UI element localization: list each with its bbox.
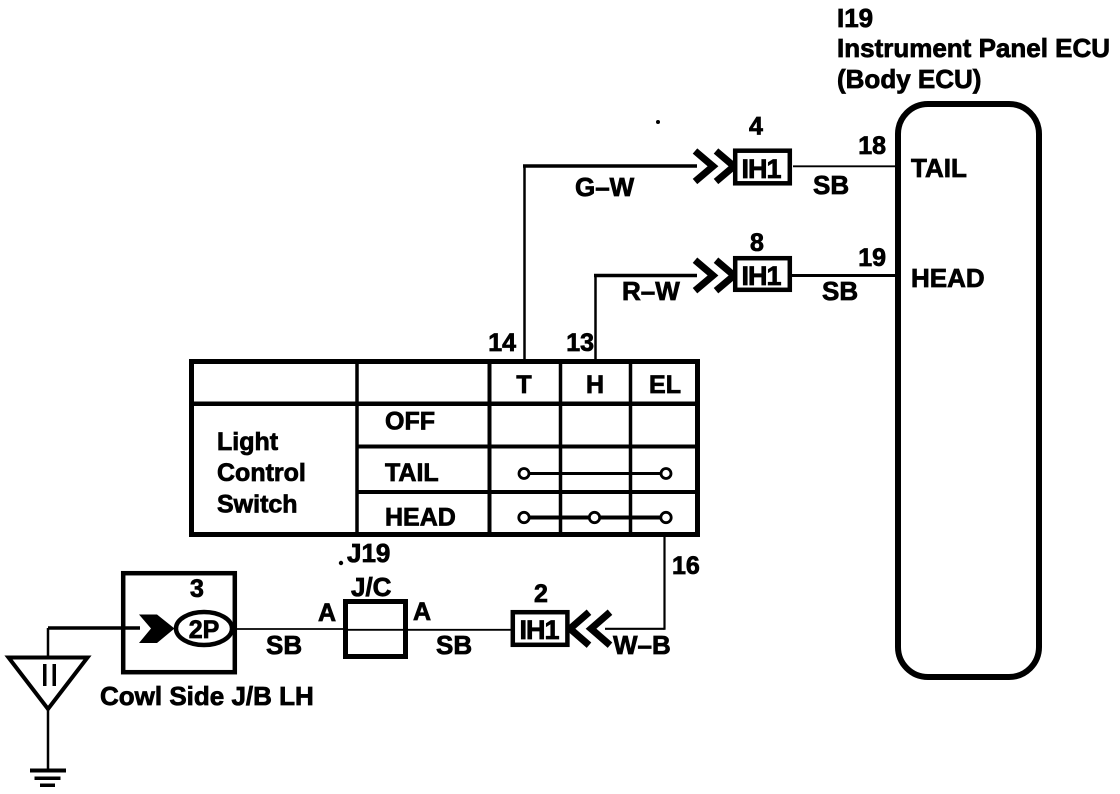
svg-text:IH1: IH1 xyxy=(519,615,559,645)
svg-text:SB: SB xyxy=(813,170,849,200)
svg-text:G–W: G–W xyxy=(575,172,635,202)
svg-text:SB: SB xyxy=(436,630,472,660)
svg-text:8: 8 xyxy=(750,229,764,257)
svg-text:HEAD: HEAD xyxy=(911,263,985,293)
svg-text:J19: J19 xyxy=(347,538,390,568)
svg-text:R–W: R–W xyxy=(622,276,680,306)
svg-text:W–B: W–B xyxy=(613,630,671,660)
svg-text:Cowl Side J/B LH: Cowl Side J/B LH xyxy=(100,681,314,711)
svg-text:Light: Light xyxy=(217,428,279,456)
svg-text:Instrument Panel ECU: Instrument Panel ECU xyxy=(837,33,1110,63)
svg-text:T: T xyxy=(516,371,531,399)
svg-text:Switch: Switch xyxy=(217,491,298,519)
svg-text:HEAD: HEAD xyxy=(385,504,456,532)
svg-text:(Body ECU): (Body ECU) xyxy=(837,64,981,94)
svg-text:16: 16 xyxy=(672,552,700,580)
svg-text:OFF: OFF xyxy=(385,408,435,436)
svg-text:3: 3 xyxy=(190,575,204,603)
svg-text:13: 13 xyxy=(566,329,594,357)
svg-text:Control: Control xyxy=(217,459,306,487)
svg-text:TAIL: TAIL xyxy=(385,459,439,487)
svg-text:18: 18 xyxy=(858,132,886,160)
svg-text:SB: SB xyxy=(822,276,858,306)
svg-text:I19: I19 xyxy=(837,3,873,33)
svg-text:2P: 2P xyxy=(189,616,220,644)
svg-text:IH1: IH1 xyxy=(741,261,781,291)
svg-text:IH1: IH1 xyxy=(741,154,781,184)
svg-text:14: 14 xyxy=(488,329,516,357)
svg-text:J/C: J/C xyxy=(351,572,392,602)
svg-text:4: 4 xyxy=(749,113,763,141)
svg-text:A: A xyxy=(318,599,336,627)
svg-text:A: A xyxy=(413,598,431,626)
svg-text:SB: SB xyxy=(266,630,302,660)
svg-text:19: 19 xyxy=(858,244,886,272)
svg-text:TAIL: TAIL xyxy=(911,153,967,183)
svg-text:EL: EL xyxy=(649,371,681,399)
svg-text:2: 2 xyxy=(534,580,548,608)
svg-text:H: H xyxy=(586,371,604,399)
